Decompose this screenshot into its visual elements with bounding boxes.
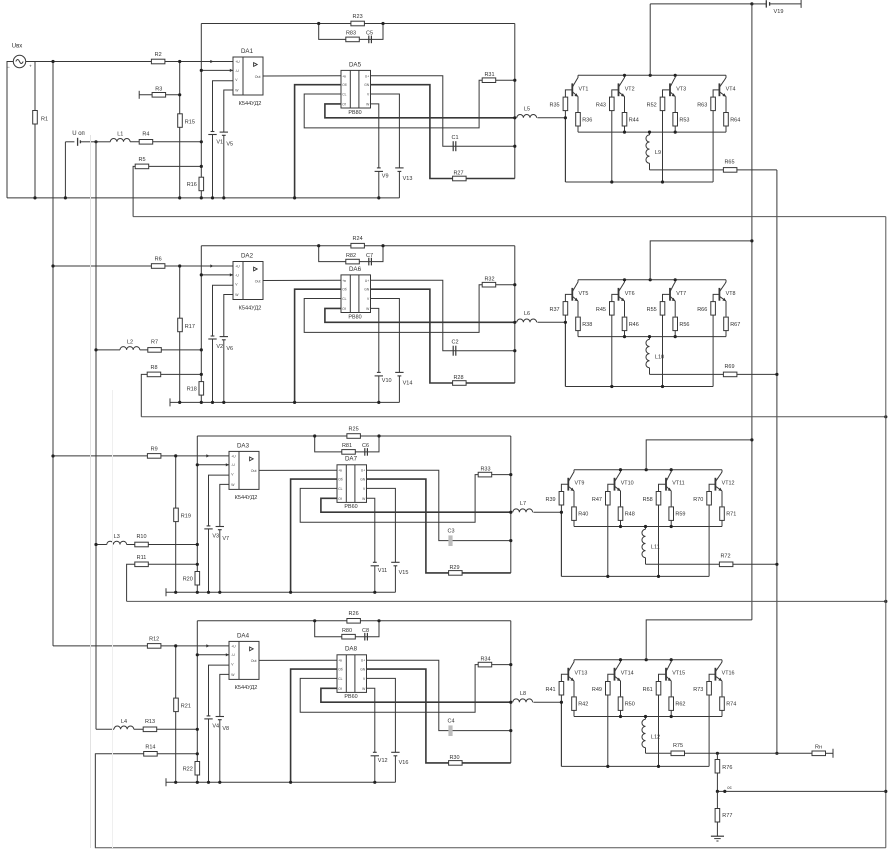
diode V8 bbox=[216, 716, 224, 718]
svg-text:U оп: U оп bbox=[72, 131, 85, 137]
wire: DA5 pin V to V13 bbox=[371, 94, 400, 168]
transistor VT10 bbox=[614, 478, 616, 491]
inductor L1 bbox=[110, 139, 130, 142]
resistor R83 bbox=[346, 37, 360, 42]
inductor L7 bbox=[513, 509, 533, 512]
resistor R22 bbox=[195, 762, 200, 776]
resistor R11 bbox=[135, 562, 149, 567]
wire: DA5 output pin4 to inductor bbox=[325, 308, 515, 322]
svg-text:+в: +в bbox=[338, 469, 342, 473]
svg-text:R41: R41 bbox=[546, 687, 556, 693]
svg-text:−: − bbox=[7, 65, 10, 70]
wire: base of VT12 bbox=[709, 484, 715, 491]
wire: supply bus bbox=[751, 4, 753, 620]
svg-text:DA8: DA8 bbox=[345, 646, 358, 653]
wire: DA5 pin V to V13 bbox=[371, 299, 400, 373]
transistor VT13 bbox=[567, 668, 569, 681]
wire: top supply bbox=[650, 3, 752, 5]
svg-text:Of: Of bbox=[342, 307, 346, 311]
svg-text:Oб: Oб bbox=[338, 478, 343, 482]
svg-text:R4: R4 bbox=[142, 132, 149, 138]
op-amp DA1 bbox=[233, 57, 263, 95]
capacitor C2 bbox=[452, 346, 454, 356]
svg-text:L6: L6 bbox=[524, 311, 530, 317]
resistor R75 bbox=[671, 751, 685, 756]
svg-text:V7: V7 bbox=[222, 536, 229, 542]
wire: op-amp pin V to bias bbox=[209, 475, 230, 526]
wire: emitter bus bbox=[574, 716, 722, 718]
svg-text:R13: R13 bbox=[145, 719, 155, 725]
wire: sense resistor line bbox=[133, 166, 201, 216]
wire: base bus bbox=[561, 765, 709, 767]
svg-text:Of: Of bbox=[342, 102, 346, 106]
svg-text:R29: R29 bbox=[449, 565, 459, 571]
svg-text:L8: L8 bbox=[520, 691, 526, 697]
svg-text:L9: L9 bbox=[655, 150, 661, 156]
svg-text:V6: V6 bbox=[226, 346, 233, 352]
svg-text:R32: R32 bbox=[484, 276, 494, 282]
svg-text:R45: R45 bbox=[596, 307, 606, 313]
wire: feedback top bbox=[201, 23, 515, 25]
svg-text:R55: R55 bbox=[647, 307, 657, 313]
svg-text:V2: V2 bbox=[216, 344, 223, 350]
wire: base bus bbox=[565, 386, 713, 388]
svg-text:DA6: DA6 bbox=[349, 266, 362, 273]
driver IC DA6 bbox=[341, 275, 371, 313]
driver IC DA5 bbox=[341, 70, 371, 108]
wire: base of VT1 bbox=[565, 90, 572, 97]
svg-text:R53: R53 bbox=[679, 117, 689, 123]
svg-text:C4: C4 bbox=[447, 718, 454, 724]
transistor VT1 bbox=[571, 83, 573, 96]
wire: +U input to op-amp bbox=[53, 645, 229, 647]
wire: power rail bbox=[578, 279, 726, 281]
transistor VT16 bbox=[714, 668, 716, 681]
transistor VT12 bbox=[714, 478, 716, 491]
svg-text:R1: R1 bbox=[41, 117, 48, 123]
wire: -U to op-amp bbox=[201, 69, 233, 71]
svg-text:R73: R73 bbox=[693, 687, 703, 693]
wire: divider node bbox=[717, 790, 885, 792]
wire: supply drop to channel 1 bbox=[649, 4, 651, 75]
svg-text:ос: ос bbox=[727, 785, 732, 790]
resistor R66 bbox=[711, 302, 716, 316]
resistor R4 bbox=[139, 140, 153, 145]
wire: inductor input line bbox=[96, 544, 107, 546]
svg-text:L1: L1 bbox=[117, 132, 123, 138]
inductor L11 (output choke) bbox=[645, 527, 647, 530]
wire: inductor input line bbox=[96, 141, 110, 143]
capacitor C7 bbox=[368, 258, 370, 266]
resistor R10 bbox=[135, 542, 149, 547]
svg-text:R67: R67 bbox=[730, 322, 740, 328]
junction dots bbox=[178, 60, 181, 63]
svg-text:РВ60: РВ60 bbox=[344, 694, 357, 700]
svg-text:CL: CL bbox=[342, 93, 346, 97]
svg-text:U+: U+ bbox=[365, 74, 369, 78]
ground bbox=[711, 835, 724, 837]
svg-text:R25: R25 bbox=[349, 426, 359, 432]
capacitor C1 bbox=[452, 141, 454, 151]
capacitor C3 bbox=[448, 535, 452, 546]
resistor R49 bbox=[606, 682, 611, 696]
wire: right feedback vertical bbox=[510, 436, 512, 573]
svg-text:C3: C3 bbox=[447, 528, 454, 534]
svg-text:Oб: Oб bbox=[342, 288, 347, 292]
resistor R63 bbox=[711, 97, 716, 111]
battery V19 bbox=[765, 0, 767, 7]
wire: DA5 right pin1 to C1 bbox=[367, 660, 511, 730]
svg-text:DA1: DA1 bbox=[241, 48, 254, 55]
svg-text:+U: +U bbox=[231, 644, 236, 648]
svg-text:V4: V4 bbox=[212, 724, 219, 730]
resistor R39 bbox=[559, 492, 564, 506]
svg-text:U+: U+ bbox=[361, 659, 365, 663]
transistor VT2 bbox=[618, 83, 620, 96]
svg-text:DA3: DA3 bbox=[237, 442, 250, 449]
wire: feedback RC branch bbox=[315, 436, 379, 452]
wire: base bus bbox=[561, 575, 709, 577]
resistor R65 bbox=[723, 168, 737, 173]
svg-text:GN: GN bbox=[360, 668, 366, 672]
resistor R16 bbox=[199, 177, 204, 191]
wire: feedback RC branch bbox=[319, 246, 383, 262]
svg-text:К544УД2: К544УД2 bbox=[235, 495, 258, 501]
wire: +U input to op-amp bbox=[53, 455, 229, 457]
diode V1 bbox=[211, 131, 215, 133]
op-amp DA2 bbox=[233, 262, 263, 300]
wire: base of VT10 bbox=[608, 484, 615, 491]
wire: output inductor to power stage bbox=[533, 511, 561, 513]
wire: DA5 right pin1 to C1 bbox=[371, 280, 515, 350]
svg-text:-U: -U bbox=[231, 653, 235, 657]
resistor R36 bbox=[577, 126, 579, 132]
wire: emitter bus bbox=[578, 336, 726, 338]
wire: DA5 pin2 ground return bbox=[295, 289, 341, 402]
svg-text:-U: -U bbox=[235, 273, 239, 277]
resistor R13 bbox=[143, 727, 157, 732]
resistor R38 bbox=[577, 331, 579, 337]
svg-text:R14: R14 bbox=[145, 744, 155, 750]
wire: sense line channel 2 bbox=[141, 416, 886, 418]
transistor VT11 bbox=[665, 478, 667, 491]
svg-text:РВ80: РВ80 bbox=[348, 314, 361, 320]
svg-text:R69: R69 bbox=[724, 364, 734, 370]
wire: base bus bbox=[565, 181, 713, 183]
svg-text:R50: R50 bbox=[625, 702, 635, 708]
svg-text:U+: U+ bbox=[361, 469, 365, 473]
resistor R41 bbox=[559, 682, 564, 696]
diode V4 bbox=[207, 715, 211, 717]
wire: inductor input line bbox=[96, 349, 120, 351]
svg-text:R52: R52 bbox=[647, 103, 657, 109]
svg-text:Of: Of bbox=[338, 687, 342, 691]
resistor R81 bbox=[342, 450, 356, 455]
wire: DA1 out to DA5 bbox=[259, 659, 337, 661]
inductor L2 bbox=[120, 347, 140, 350]
inductor L3 bbox=[107, 541, 127, 544]
wire: op-amp pin W to bias bbox=[224, 90, 233, 132]
resistor R33 bbox=[478, 472, 492, 477]
resistor R14 bbox=[144, 752, 158, 757]
wire: DA5 pin3 loop to R31 bbox=[304, 80, 515, 128]
wire: feedback sense bus (right edge) bbox=[885, 217, 887, 848]
transistor VT15 bbox=[665, 668, 667, 681]
svg-text:DA4: DA4 bbox=[237, 632, 250, 639]
svg-text:R46: R46 bbox=[629, 322, 639, 328]
wire: feedback top bbox=[197, 620, 511, 622]
svg-text:VT12: VT12 bbox=[722, 481, 735, 487]
svg-text:R82: R82 bbox=[346, 253, 356, 259]
resistor R67 bbox=[725, 331, 727, 337]
capacitor C8 bbox=[364, 633, 366, 641]
svg-text:+U: +U bbox=[235, 264, 240, 268]
wire: op-amp pin W to bias bbox=[224, 295, 233, 337]
svg-text:R21: R21 bbox=[181, 704, 191, 710]
svg-text:R28: R28 bbox=[453, 375, 463, 381]
wire: input node vertical (channel 3) bbox=[175, 456, 177, 592]
wire: supply tap channel 3 bbox=[646, 440, 752, 470]
svg-text:V9: V9 bbox=[382, 174, 389, 180]
svg-text:R83: R83 bbox=[346, 31, 356, 37]
svg-text:К544УД2: К544УД2 bbox=[239, 101, 262, 107]
svg-text:R65: R65 bbox=[724, 159, 734, 165]
wire: input node vertical (channel 1) bbox=[179, 62, 181, 198]
wire: base of VT3 bbox=[663, 90, 671, 97]
wire: feedback top bbox=[201, 245, 515, 247]
svg-text:R44: R44 bbox=[629, 117, 639, 123]
svg-text:R39: R39 bbox=[546, 497, 556, 503]
svg-text:R36: R36 bbox=[582, 117, 592, 123]
resistor R48 bbox=[620, 521, 622, 527]
svg-text:VT8: VT8 bbox=[726, 291, 736, 297]
junction dots bbox=[174, 644, 177, 647]
wire: DA5 pin V to V13 bbox=[367, 488, 396, 562]
wire: op-amp pin V to bias bbox=[213, 285, 234, 336]
svg-text:R22: R22 bbox=[183, 767, 193, 773]
svg-text:V1: V1 bbox=[216, 139, 223, 145]
wire: +U input to op-amp bbox=[26, 61, 233, 63]
svg-text:R40: R40 bbox=[578, 512, 588, 518]
resistor R46 bbox=[624, 331, 626, 337]
svg-text:R59: R59 bbox=[675, 512, 685, 518]
wire: inverting node vertical bbox=[200, 24, 202, 198]
wire: choke to R69 bbox=[649, 368, 651, 375]
svg-text:DA5: DA5 bbox=[349, 61, 362, 68]
svg-text:V19: V19 bbox=[774, 9, 784, 15]
wire: DA5 right pin2 to R27 bbox=[371, 85, 515, 179]
wire: emitter bus bbox=[578, 131, 726, 133]
svg-text:R77: R77 bbox=[722, 813, 732, 819]
transistor VT8 bbox=[718, 288, 720, 301]
inductor L12 (output choke) bbox=[645, 717, 647, 720]
wire: right feedback vertical bbox=[510, 621, 512, 763]
transistor VT5 bbox=[571, 288, 573, 301]
wire: inverting node vertical bbox=[196, 436, 198, 592]
resistor R71 bbox=[721, 521, 723, 527]
diode V13 bbox=[395, 167, 403, 169]
resistor R19 bbox=[174, 508, 179, 521]
wire: U оп distribution bus bbox=[95, 142, 97, 730]
resistor R42 bbox=[573, 711, 575, 717]
wire: DA5 pin W to V9 bbox=[371, 104, 379, 168]
svg-text:Rн: Rн bbox=[815, 745, 822, 751]
diode V16 bbox=[391, 751, 399, 753]
svg-text:L4: L4 bbox=[121, 719, 127, 725]
diode V12 bbox=[373, 751, 377, 753]
diode V5 bbox=[220, 131, 228, 133]
wire: DA5 pin W to V9 bbox=[367, 498, 375, 562]
svg-text:R63: R63 bbox=[697, 103, 707, 109]
resistor R40 bbox=[573, 521, 575, 527]
svg-text:R62: R62 bbox=[675, 702, 685, 708]
svg-text:VT14: VT14 bbox=[621, 671, 634, 677]
wire: input node vertical (channel 4) bbox=[175, 646, 177, 782]
wire: ground bus bbox=[169, 398, 171, 406]
svg-text:V15: V15 bbox=[399, 570, 409, 576]
wire: choke to R75 bbox=[645, 748, 647, 754]
wire: inverting node vertical bbox=[200, 246, 202, 403]
svg-text:R30: R30 bbox=[449, 755, 459, 761]
svg-text:R64: R64 bbox=[730, 117, 740, 123]
resistor R56 bbox=[674, 331, 676, 337]
resistor R58 bbox=[656, 492, 661, 506]
op-amp DA3 bbox=[229, 451, 259, 489]
svg-text:+U: +U bbox=[231, 454, 236, 458]
resistor R3 (reference) bbox=[138, 91, 140, 99]
svg-text:CL: CL bbox=[342, 297, 346, 301]
svg-text:R23: R23 bbox=[353, 14, 363, 20]
svg-text:+U: +U bbox=[235, 60, 240, 64]
svg-text:Out: Out bbox=[251, 659, 257, 663]
svg-text:R31: R31 bbox=[484, 72, 494, 78]
wire: sense line channel 1 bbox=[133, 216, 886, 218]
wire: output inductor to power stage bbox=[537, 117, 565, 119]
wire: output inductor to power stage bbox=[533, 701, 561, 703]
wire: output bus bbox=[776, 170, 778, 753]
transistor VT7 bbox=[669, 288, 671, 301]
svg-text:Out: Out bbox=[255, 75, 261, 79]
wire: power rail bbox=[574, 659, 722, 661]
transistor VT4 bbox=[718, 83, 720, 96]
svg-text:R3: R3 bbox=[155, 86, 162, 92]
resistor R52 bbox=[660, 97, 665, 111]
inductor L6 bbox=[517, 319, 537, 322]
wire: DA5 output pin4 to inductor bbox=[325, 104, 515, 118]
wire: feedback RC branch bbox=[319, 24, 383, 40]
wire: base of VT9 bbox=[561, 484, 568, 491]
wire: DA5 pin2 ground return bbox=[295, 85, 341, 198]
svg-text:V10: V10 bbox=[382, 378, 392, 384]
diode V2 bbox=[211, 335, 215, 337]
svg-text:Oб: Oб bbox=[342, 83, 347, 87]
resistor R59 bbox=[670, 521, 672, 527]
svg-text:R35: R35 bbox=[550, 103, 560, 109]
wire: R72 to output bus bbox=[733, 563, 777, 565]
wire: feedback top bbox=[197, 435, 511, 437]
svg-text:V8: V8 bbox=[222, 726, 229, 732]
resistor R18 bbox=[199, 382, 204, 396]
svg-text:R80: R80 bbox=[342, 628, 352, 634]
wire: DA5 pin3 loop to R31 bbox=[300, 475, 511, 523]
svg-text:R15: R15 bbox=[185, 119, 195, 125]
svg-text:DA7: DA7 bbox=[345, 456, 358, 463]
svg-text:VT1: VT1 bbox=[579, 86, 589, 92]
resistor R17 bbox=[178, 318, 183, 332]
op-amp DA4 bbox=[229, 641, 259, 679]
svg-text:R49: R49 bbox=[592, 687, 602, 693]
svg-text:V14: V14 bbox=[403, 380, 413, 386]
svg-text:V13: V13 bbox=[403, 176, 413, 182]
svg-text:R26: R26 bbox=[349, 611, 359, 617]
diode V9 bbox=[377, 167, 381, 169]
svg-text:L12: L12 bbox=[651, 735, 660, 741]
wire: DA5 pin2 ground return bbox=[291, 669, 337, 782]
wire: op-amp pin V to bias bbox=[213, 81, 234, 132]
wire: DA5 pin W to V9 bbox=[371, 308, 379, 372]
diode V15 bbox=[391, 561, 399, 563]
resistor R37 bbox=[563, 302, 568, 316]
wire: DA5 pin W to V9 bbox=[367, 688, 375, 752]
diode V10 bbox=[377, 371, 381, 373]
wire: power rail bbox=[578, 74, 726, 76]
wire: DA1 out to DA5 bbox=[263, 279, 341, 281]
svg-text:R81: R81 bbox=[342, 443, 352, 449]
capacitor C6 bbox=[364, 448, 366, 456]
wire: right feedback vertical bbox=[514, 24, 516, 179]
resistor R44 bbox=[624, 126, 626, 132]
resistor R55 bbox=[660, 302, 665, 316]
svg-text:Uвх: Uвх bbox=[12, 44, 23, 50]
wire: base of VT16 bbox=[709, 674, 715, 681]
resistor R82 bbox=[346, 259, 360, 264]
wire: DA1 out to DA5 bbox=[259, 469, 337, 471]
wire: -U to op-amp bbox=[197, 654, 229, 656]
svg-text:Out: Out bbox=[255, 279, 261, 283]
resistor R43 bbox=[610, 97, 615, 111]
resistor R5 bbox=[135, 164, 149, 169]
transistor VT3 bbox=[669, 83, 671, 96]
resistor R21 bbox=[174, 698, 179, 712]
svg-text:К544УД2: К544УД2 bbox=[235, 685, 258, 691]
svg-text:VT2: VT2 bbox=[625, 86, 635, 92]
svg-text:+в: +в bbox=[342, 74, 346, 78]
capacitor C5 bbox=[368, 36, 370, 44]
wire: DA5 right pin2 to R27 bbox=[367, 479, 511, 573]
resistor R45 bbox=[610, 302, 615, 316]
inductor L9 (output choke) bbox=[649, 132, 651, 135]
wire: input distribution bus bbox=[52, 62, 54, 646]
driver IC DA8 bbox=[337, 655, 367, 693]
resistor R53 bbox=[674, 126, 676, 132]
wire: DA5 right pin1 to C1 bbox=[367, 470, 511, 540]
wire: ground bus bbox=[165, 778, 167, 786]
svg-text:+в: +в bbox=[342, 279, 346, 283]
svg-text:R19: R19 bbox=[181, 514, 191, 520]
wire: inverting node vertical bbox=[196, 621, 198, 783]
svg-text:R18: R18 bbox=[187, 387, 197, 393]
load resistor Rн bbox=[812, 751, 826, 756]
svg-text:C2: C2 bbox=[451, 339, 458, 345]
svg-text:R9: R9 bbox=[151, 446, 158, 452]
resistor R74 bbox=[721, 711, 723, 717]
svg-text:L5: L5 bbox=[524, 107, 530, 113]
resistor R15 bbox=[178, 114, 183, 128]
wire: base of VT7 bbox=[663, 294, 671, 301]
svg-text:+в: +в bbox=[338, 659, 342, 663]
diode V11 bbox=[373, 561, 377, 563]
transistor VT6 bbox=[618, 288, 620, 301]
